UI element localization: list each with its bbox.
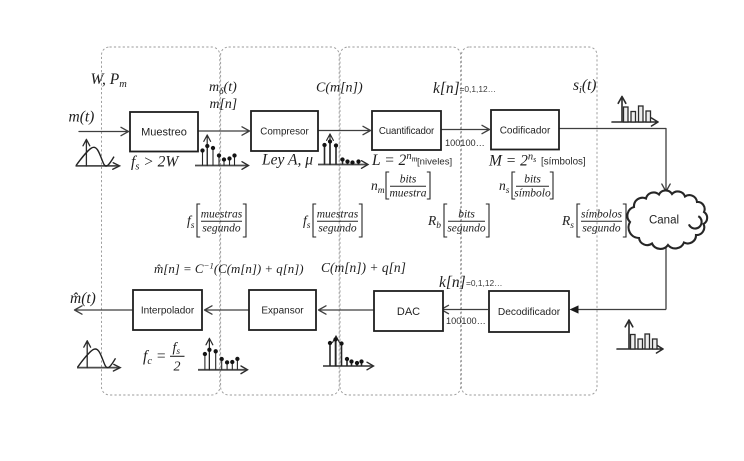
block Compresor bbox=[251, 111, 318, 151]
svg-text:símbolo: símbolo bbox=[514, 188, 551, 200]
dashed stage box 1 (Muestreo/Interpolador) bbox=[102, 47, 220, 395]
svg-text:[símbolos]: [símbolos] bbox=[541, 157, 586, 168]
svg-text:mδ(t): mδ(t) bbox=[209, 80, 237, 97]
block Decodificador bbox=[489, 291, 569, 332]
svg-text:símbolos: símbolos bbox=[581, 209, 622, 221]
wire Cuantificador to Codificador bbox=[441, 125, 490, 133]
block Codificador bbox=[491, 110, 559, 150]
svg-text:100100…: 100100… bbox=[445, 138, 485, 148]
svg-text:Expansor: Expansor bbox=[261, 306, 304, 317]
dashed stage box 4 (Codificador/Decodificador) bbox=[461, 47, 597, 395]
sketch digital signal before Decodificador bbox=[617, 320, 663, 353]
sketch reconstructed analog m^(t) bbox=[77, 341, 120, 371]
svg-text:bits: bits bbox=[400, 174, 417, 186]
dashed stage box 2 (Compresor/Expansor) bbox=[221, 47, 340, 395]
svg-text:m̂(t): m̂(t) bbox=[70, 290, 96, 307]
svg-text:[niveles]: [niveles] bbox=[417, 157, 452, 168]
block Muestreo bbox=[130, 112, 198, 152]
svg-text:bits: bits bbox=[524, 174, 541, 186]
svg-text:Canal: Canal bbox=[649, 215, 679, 227]
svg-text:muestra: muestra bbox=[389, 188, 426, 200]
svg-text:si(t): si(t) bbox=[573, 77, 596, 96]
wire Decodificador to DAC bbox=[441, 305, 488, 313]
svg-text:Ley A, μ: Ley A, μ bbox=[261, 152, 313, 169]
svg-text:Interpolador: Interpolador bbox=[141, 306, 195, 317]
label Rb [bits/segundo] bbox=[427, 204, 489, 237]
wire DAC to Expansor bbox=[319, 306, 375, 314]
block Cuantificador bbox=[372, 111, 441, 150]
sketch compressed signal after Compresor bbox=[318, 134, 368, 168]
svg-text:k[n]: k[n] bbox=[433, 80, 460, 97]
svg-text:fc =: fc = bbox=[143, 348, 166, 367]
svg-text:=0,1,12…: =0,1,12… bbox=[460, 84, 497, 94]
block Interpolador bbox=[133, 290, 202, 330]
svg-text:m̂[n] = C−1(C(m[n]) + q[n]): m̂[n] = C−1(C(m[n]) + q[n]) bbox=[154, 261, 304, 277]
sketch compressed samples after DAC bbox=[323, 336, 374, 370]
wire Expansor to Interpolador bbox=[205, 306, 250, 314]
wire Compresor to Cuantificador bbox=[318, 126, 371, 134]
svg-text:C(m[n]): C(m[n]) bbox=[316, 81, 363, 96]
svg-text:C(m[n]) + q[n]: C(m[n]) + q[n] bbox=[321, 260, 406, 275]
wire Muestreo to Compresor bbox=[198, 127, 250, 135]
svg-text:=0,1,12…: =0,1,12… bbox=[466, 278, 503, 288]
svg-text:segundo: segundo bbox=[582, 223, 621, 235]
svg-text:muestras: muestras bbox=[317, 209, 359, 221]
svg-text:m(t): m(t) bbox=[69, 109, 95, 126]
label Rs [simbolos/segundo] bbox=[561, 204, 626, 237]
wire Interpolador output m^(t) bbox=[75, 306, 134, 314]
label fs [muestras/segundo] 2 bbox=[303, 204, 362, 237]
svg-text:segundo: segundo bbox=[447, 223, 486, 235]
channel cloud Canal bbox=[627, 190, 707, 248]
svg-text:segundo: segundo bbox=[318, 223, 357, 235]
svg-text:bits: bits bbox=[458, 209, 475, 221]
svg-text:DAC: DAC bbox=[397, 306, 420, 318]
svg-text:muestras: muestras bbox=[201, 209, 243, 221]
svg-text:Compresor: Compresor bbox=[260, 126, 309, 137]
svg-text:m[n]: m[n] bbox=[210, 96, 238, 111]
label n_s [bits/simbolo] bbox=[499, 172, 553, 200]
block Expansor bbox=[249, 290, 316, 330]
sketch digital signal after Codificador bbox=[612, 97, 658, 127]
wire m(t) input arrow bbox=[79, 127, 129, 135]
svg-text:segundo: segundo bbox=[202, 223, 241, 235]
svg-text:2: 2 bbox=[174, 360, 181, 375]
dashed stage box 3 (Cuantificador/DAC) bbox=[340, 47, 461, 395]
wire Canal to Decodificador bbox=[570, 245, 667, 314]
svg-text:Cuantificador: Cuantificador bbox=[379, 126, 435, 137]
svg-text:Muestreo: Muestreo bbox=[141, 127, 187, 139]
sketch expanded samples after Expansor bbox=[198, 338, 248, 373]
svg-text:Codificador: Codificador bbox=[500, 125, 551, 136]
svg-text:100100…: 100100… bbox=[446, 316, 486, 326]
sketch analog signal m(t) bbox=[76, 139, 120, 169]
svg-text:k[n]: k[n] bbox=[439, 274, 466, 291]
sketch sampled signal after Muestreo bbox=[195, 135, 249, 169]
label fs [muestras/segundo] 1 bbox=[187, 204, 246, 237]
label n_m [bits/muestra] bbox=[371, 172, 430, 200]
svg-text:Decodificador: Decodificador bbox=[498, 307, 561, 318]
wire Codificador to Canal bbox=[559, 129, 670, 192]
block DAC bbox=[374, 291, 443, 331]
